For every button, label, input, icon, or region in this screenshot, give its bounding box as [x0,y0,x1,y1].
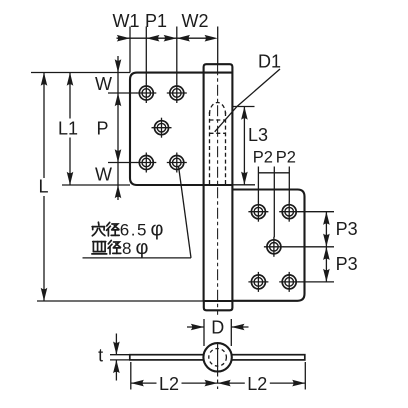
svg-text:L2: L2 [247,374,267,394]
svg-text:L: L [38,177,48,197]
svg-text:D: D [211,318,224,338]
svg-text:L3: L3 [248,125,268,145]
svg-text:W: W [95,74,112,94]
svg-text:P2: P2 [253,148,273,166]
svg-text:D1: D1 [258,52,281,72]
svg-text:P: P [96,119,108,139]
svg-text:8φ: 8φ [122,237,148,259]
svg-text:W1: W1 [113,11,140,31]
svg-text:W: W [95,165,112,185]
svg-text:t: t [98,346,103,366]
svg-text:L1: L1 [58,119,78,139]
svg-text:W2: W2 [182,11,209,31]
svg-text:P1: P1 [145,11,167,31]
svg-text:P3: P3 [336,219,358,239]
svg-text:P3: P3 [336,254,358,274]
svg-text:L2: L2 [159,374,179,394]
svg-text:P2: P2 [276,148,296,166]
